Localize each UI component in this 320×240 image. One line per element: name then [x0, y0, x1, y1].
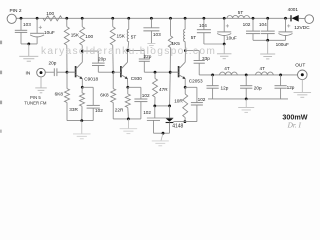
svg-text:PIN 2: PIN 2	[10, 8, 22, 14]
svg-text:103: 103	[23, 22, 31, 27]
wire output line	[199, 74, 298, 76]
terminal PIN 2 (input supply)	[7, 8, 22, 24]
inductor 5T (Q3 collector load)	[184, 18, 197, 50]
svg-text:100: 100	[85, 34, 93, 39]
svg-text:102: 102	[142, 93, 150, 98]
diode D 4148 (bias stabiliser)	[166, 106, 184, 133]
svg-text:PIN 5: PIN 5	[30, 95, 41, 100]
wire filter-cap bottoms join	[21, 43, 37, 57]
resistor 100 (series supply)	[43, 11, 62, 21]
wire 104/10uF bottoms join	[204, 43, 226, 54]
junction top rail x=66.8	[65, 17, 68, 20]
ground OUT connector	[294, 92, 312, 97]
wire 102/104/100uF bottoms join	[253, 39, 286, 54]
resistor 1K5 (Q3 base bias)	[168, 18, 180, 106]
svg-text:33p: 33p	[202, 56, 210, 61]
svg-text:22R: 22R	[115, 107, 124, 112]
svg-text:100: 100	[46, 11, 54, 16]
node Q3 base / 47R junction	[154, 71, 157, 74]
svg-text:4148: 4148	[172, 124, 183, 130]
svg-text:C2053: C2053	[189, 78, 203, 83]
inductor 5T (supply series)	[227, 10, 250, 18]
svg-text:6K8: 6K8	[100, 93, 109, 98]
resistor 15K (Q2 base bias)	[110, 18, 125, 72]
transistor Q3 C2053	[170, 51, 203, 88]
ground bias network	[152, 141, 169, 146]
node Q1 base junction	[66, 71, 69, 74]
svg-text:100uF: 100uF	[276, 42, 289, 47]
resistor 15K (Q1 base bias)	[64, 18, 80, 72]
junction top rail x=224.2	[223, 17, 226, 20]
resistor 10R (Q3 emitter)	[174, 87, 188, 121]
node Q3 emitter	[184, 86, 187, 89]
left margin tick marks	[0, 41, 2, 133]
capacitor C 12p (output filter c)	[275, 75, 295, 99]
svg-text:12VDC: 12VDC	[294, 25, 310, 31]
node output tap 3	[279, 74, 282, 77]
resistor 33R (Q1 emitter)	[69, 87, 84, 120]
junction top rail x=285.5	[284, 17, 287, 20]
transistor Q1 C9018	[67, 51, 99, 87]
ground Q2 stage	[120, 129, 137, 134]
label 300mW output power	[282, 112, 307, 121]
svg-text:12p: 12p	[287, 85, 295, 90]
ground 104/10uF pair	[217, 54, 232, 59]
label Dr. I author	[287, 121, 302, 130]
junction top rail x=267.7	[266, 17, 269, 20]
junction top rail x=151.4	[150, 17, 153, 20]
junction top rail x=185.1	[184, 17, 187, 20]
terminal OUT	[295, 63, 307, 93]
capacitor C 20p (stage1-2 coupling)	[82, 51, 113, 72]
transistor Q2 C930	[113, 50, 142, 87]
svg-text:10uF: 10uF	[226, 36, 237, 41]
wire Q1 stage ground rail	[67, 119, 93, 133]
svg-text:TUNER FM: TUNER FM	[24, 100, 47, 105]
capacitor C 20p (input coupling)	[45, 60, 75, 76]
capacitor C 102 (Q1 emitter bypass)	[82, 87, 103, 120]
svg-text:102: 102	[198, 97, 206, 102]
wire output filter ground rail	[208, 98, 288, 108]
node Q2 emitter	[126, 86, 129, 89]
inductor 5T (Q2 collector load)	[127, 18, 136, 50]
svg-text:15K: 15K	[71, 32, 80, 37]
capacitor C 12p (output filter a)	[207, 75, 229, 99]
svg-text:4T: 4T	[224, 66, 230, 71]
capacitor 10uF electrolytic #1	[30, 18, 55, 44]
junction top rail x=82.2	[81, 17, 84, 20]
svg-text:5T: 5T	[131, 35, 137, 40]
svg-text:33R: 33R	[69, 107, 78, 112]
wire top supply rail	[16, 17, 291, 19]
label PIN 5 TUNER FM	[24, 95, 47, 105]
ground Q1 stage	[73, 134, 91, 139]
junction top rail x=37.1	[36, 17, 39, 20]
capacitor C 22p (stage2-3 coupling)	[128, 50, 179, 72]
capacitor 10uF electrolytic #2	[217, 18, 237, 44]
ground input filter	[19, 56, 38, 61]
svg-text:5T: 5T	[191, 35, 197, 40]
resistor 6K8 (Q1 base-gnd)	[55, 72, 70, 120]
svg-text:6K8: 6K8	[55, 92, 64, 97]
junction top rail x=253	[252, 17, 255, 20]
svg-text:104: 104	[199, 23, 207, 28]
svg-text:12p: 12p	[221, 86, 229, 91]
svg-text:20p: 20p	[49, 60, 57, 65]
wire Q2 stage ground rail	[113, 118, 141, 129]
capacitor C 102 (bias decoupling)	[143, 106, 173, 133]
svg-text:10uF: 10uF	[44, 30, 55, 35]
resistor 6K8 (Q2 base-gnd)	[100, 72, 115, 119]
diode D 4001 (supply polarity)	[288, 7, 305, 21]
junction top rail x=21	[20, 17, 23, 20]
junction top rail x=170.5	[169, 17, 172, 20]
ground output filter	[238, 108, 254, 113]
svg-text:10R: 10R	[174, 98, 183, 103]
capacitor C 102 (Q3 emitter bypass)	[185, 87, 206, 121]
capacitor 100uF electrolytic	[276, 18, 293, 47]
capacitor C 104 (supply bypass 3)	[259, 18, 275, 40]
ground IN connector	[35, 88, 47, 93]
wire bias network ground rail	[154, 132, 170, 141]
resistor 100 (Q1 collector load)	[80, 18, 94, 51]
watermark karyasolderanku.blogspot.com	[41, 46, 216, 57]
node Q3 base / 1K5 junction	[169, 71, 172, 74]
node Q3 collector	[184, 49, 187, 52]
node Q2 collector	[126, 49, 129, 52]
node Q2 base junction	[112, 71, 115, 74]
terminal IN (antenna input)	[26, 68, 46, 87]
svg-text:102: 102	[143, 110, 151, 115]
capacitor C 102 (Q2 emitter bypass)	[128, 87, 150, 119]
svg-text:C930: C930	[131, 76, 143, 81]
node Q1 collector	[81, 50, 84, 53]
svg-text:Dr. I: Dr. I	[287, 121, 302, 130]
svg-text:104: 104	[259, 22, 267, 27]
svg-text:4001: 4001	[288, 7, 299, 12]
resistor 22R (Q2 emitter)	[115, 87, 131, 119]
svg-text:102: 102	[95, 108, 103, 113]
capacitor C 103 (input filter)	[15, 18, 31, 44]
svg-text:103: 103	[153, 32, 161, 37]
node output tap 2	[245, 74, 248, 77]
svg-text:C9018: C9018	[84, 76, 98, 81]
node 10R/102 to diode anode	[173, 120, 197, 123]
svg-text:47R: 47R	[159, 87, 168, 92]
svg-text:4T: 4T	[260, 66, 266, 71]
svg-text:karyasolderanku.blogspot.com: karyasolderanku.blogspot.com	[41, 46, 216, 57]
inductor 4T (output filter 2)	[256, 66, 274, 75]
ground of 103 bypass	[147, 44, 155, 48]
node Q1 emitter	[81, 86, 84, 89]
wire bias node rail (47R/1K5 feet)	[153, 105, 171, 108]
svg-text:20p: 20p	[254, 86, 262, 91]
capacitor C 103 (supply bypass)	[143, 18, 161, 43]
svg-text:102: 102	[243, 22, 251, 27]
capacitor C 102 (supply bypass 2)	[243, 18, 260, 40]
capacitor C 104 (supply bypass 1)	[197, 18, 211, 44]
ground 102/104/100uF trio	[260, 54, 275, 59]
svg-text:15K: 15K	[117, 34, 126, 39]
node output tap 1	[211, 74, 214, 77]
svg-text:20p: 20p	[98, 57, 106, 62]
svg-text:OUT: OUT	[295, 63, 305, 69]
capacitor C 20p (output filter b)	[240, 75, 262, 99]
svg-text:IN: IN	[26, 71, 31, 77]
terminal 12VDC supply input	[294, 15, 313, 31]
resistor 47R (Q3 base-bias lower)	[153, 72, 169, 106]
inductor 4T (output filter 1)	[220, 66, 238, 75]
capacitor C 33p (output coupling)	[185, 51, 210, 75]
svg-text:5T: 5T	[238, 10, 244, 15]
junction top rail x=203.9	[203, 17, 206, 20]
junction top rail x=112.75	[111, 17, 114, 20]
junction top rail x=128.75	[127, 17, 130, 20]
